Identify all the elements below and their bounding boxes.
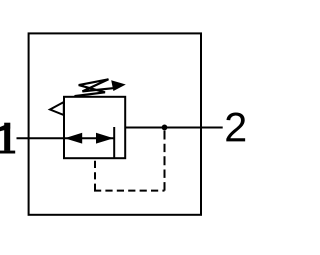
adjustment spring zigzag with arrow bbox=[75, 79, 114, 96]
pilot line down from body bbox=[94, 161, 96, 191]
pilot line horizontal bbox=[94, 190, 165, 192]
flow double arrow shaft bbox=[64, 137, 114, 139]
junction dot bbox=[162, 125, 168, 131]
left arrowhead bbox=[65, 133, 83, 144]
label 1 bbox=[0, 123, 15, 154]
label 2 bbox=[226, 113, 245, 142]
pilot line up to output bbox=[164, 131, 166, 191]
relief triangle bbox=[50, 102, 64, 115]
adjustment arrowhead bbox=[111, 80, 126, 91]
port 2 line (output wire) bbox=[125, 127, 223, 129]
seat line (inner vertical) bbox=[113, 127, 115, 158]
frame border bbox=[29, 33, 201, 214]
right arrowhead bbox=[96, 133, 114, 144]
regulator body box bbox=[64, 97, 125, 158]
port 1 line (input wire) bbox=[17, 137, 65, 139]
